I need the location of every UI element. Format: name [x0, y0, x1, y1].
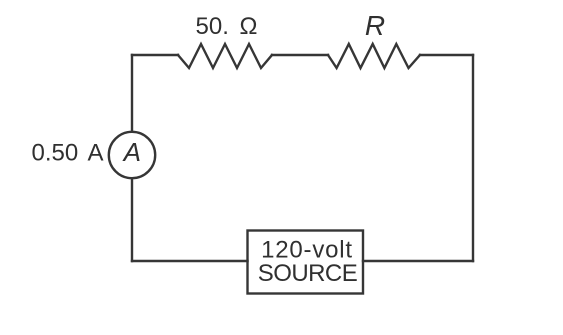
- wire bottom-left segment: [132, 260, 248, 262]
- wire bottom-right segment: [363, 260, 473, 262]
- resistor 50 ohm (zigzag): [178, 44, 272, 68]
- wire left vertical lower: [131, 179, 133, 261]
- wire top-right segment: [420, 54, 473, 56]
- svg-text:SOURCE: SOURCE: [258, 260, 357, 287]
- source box 120-volt: [248, 231, 364, 294]
- svg-text:50. Ω: 50. Ω: [196, 13, 258, 40]
- wire left vertical upper: [131, 55, 133, 131]
- svg-text:R: R: [365, 10, 385, 41]
- svg-text:A: A: [122, 137, 141, 167]
- ammeter A1 circle: [109, 132, 155, 178]
- svg-text:0.50 A: 0.50 A: [32, 140, 104, 167]
- wire top-left segment: [132, 54, 178, 56]
- wire right vertical: [472, 55, 474, 261]
- wire between resistors: [272, 54, 328, 56]
- resistor R (zigzag): [328, 44, 420, 68]
